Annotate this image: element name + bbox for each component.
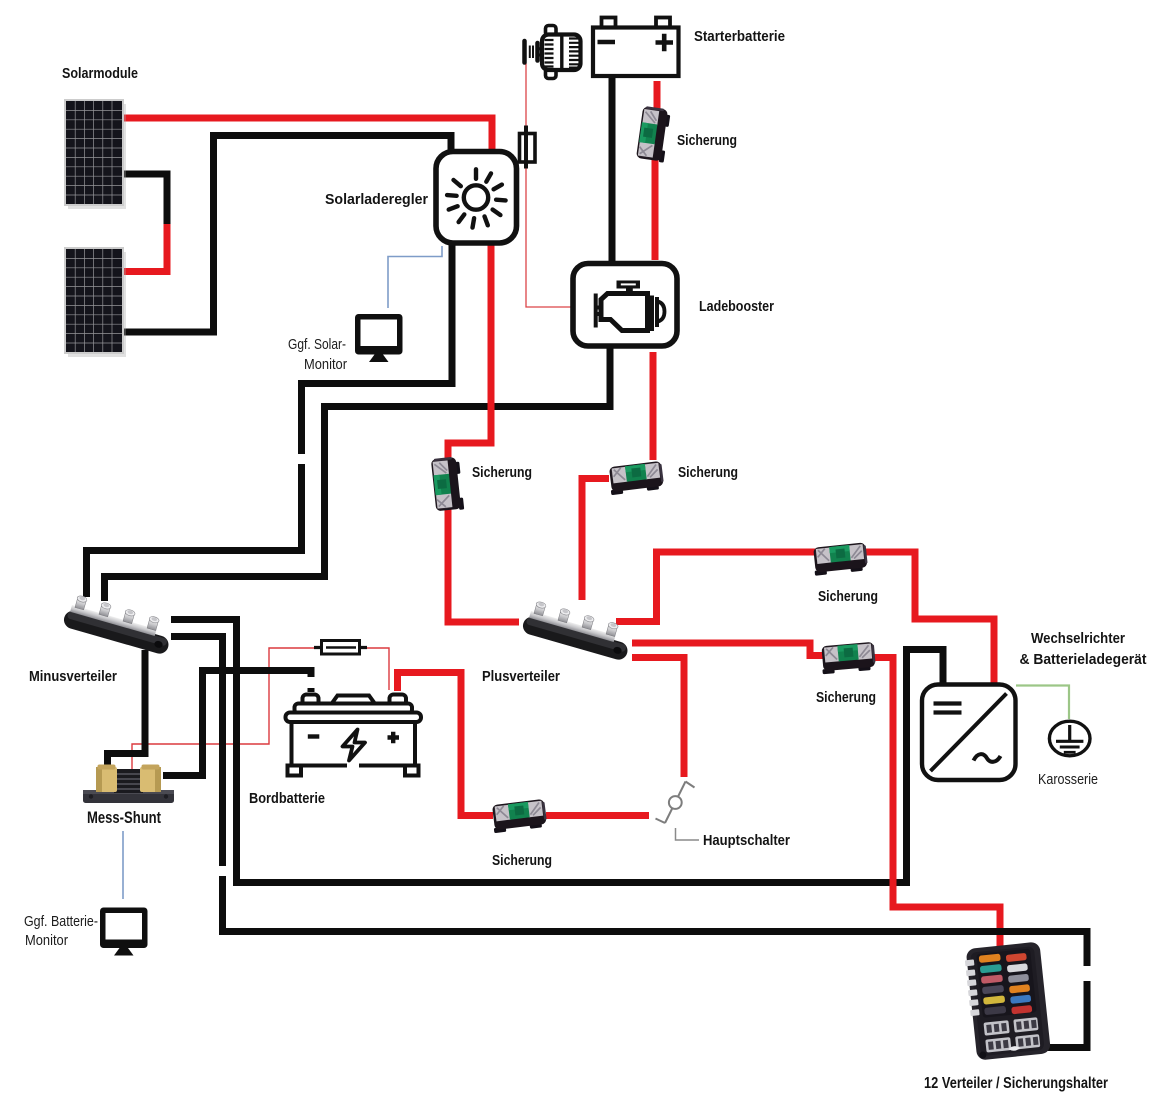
svg-text:Ggf. Batterie-: Ggf. Batterie- [24,914,98,930]
wire black minusverteiler to 12-way fuse box [171,637,1087,1048]
wire black minusverteiler to shunt left [108,650,146,766]
solar panel PV2 [65,248,126,357]
plus distributor bus bar (Plusverteiler) [521,599,634,662]
solar monitor icon [355,314,403,362]
fuse F1 (photo, vertical) [636,106,671,163]
svg-text:12 Verteiler / Sicherungshalte: 12 Verteiler / Sicherungshalter [924,1075,1108,1092]
wire red plusverteiler to fuse F4 [616,552,820,622]
wire black panel2 minus to controller top [123,136,451,333]
wire black ladebooster minus to minusverteiler stud2 [105,346,611,601]
svg-text:Plusverteiler: Plusverteiler [482,669,560,685]
wire red fuse F3 to plusverteiler [582,479,609,601]
wire black starterbatterie minus to ladebooster [609,78,616,261]
solar charge controller (Solarladeregler) [436,152,517,244]
svg-text:Starterbatterie: Starterbatterie [694,29,785,45]
svg-text:Monitor: Monitor [304,357,347,373]
svg-text:Solarmodule: Solarmodule [62,66,138,82]
wire black bordbatterie minus to shunt right [163,671,311,776]
inverter and charger (Wechselrichter & Batterieladegeraet) [922,685,1016,781]
starter battery (Starterbatterie) [593,18,679,77]
wire black solar panel1 minus to interconnect [123,174,167,226]
wire red interconnect to panel2 plus [123,224,167,272]
svg-text:Solarladeregler: Solarladeregler [325,192,428,208]
fuse F6 (photo) [491,799,548,833]
wire thin blue shunt to battery monitor [122,831,124,899]
fuse F4 (photo) [812,542,868,575]
wire black minusverteiler to inverter minus [171,620,943,883]
main switch (Hauptschalter) [656,782,695,824]
wire black controller minus to minusverteiler stud1 [87,244,453,597]
wire red fuse F1 to ladebooster plus [652,155,659,260]
wire green inverter to chassis ground [1016,686,1069,720]
wire red ladebooster out to fuse F3 [650,352,657,460]
fuse symbol FS2 inline (sense line) [314,641,367,655]
svg-text:Hauptschalter: Hauptschalter [703,833,790,849]
svg-text:Sicherung: Sicherung [816,690,876,706]
svg-text:Bordbatterie: Bordbatterie [249,791,325,807]
wire red bordbatterie plus to fuse F6 [398,673,494,816]
wire red plusverteiler to fuse F5 [632,643,827,656]
wire red fuse F6 to hauptschalter [546,812,649,819]
wire red controller out to fuse F2 [448,244,491,463]
fuse F2 (photo, vertical) [431,456,464,512]
wire jump marker on controller minus run [298,454,306,464]
alternator (Lichtmaschine) [525,26,581,79]
wire thin red battery sense (shunt to bordbatterie plus) [132,648,389,776]
svg-text:Sicherung: Sicherung [492,853,552,869]
wire jump marker on fuse box minus run (left) [219,866,227,876]
fuse F5 (photo) [820,642,876,675]
wire red starterbatterie plus to fuse F1 [654,81,661,113]
wire red fuse F5 to 12-way fuse box [865,658,1000,947]
wire red plusverteiler to hauptschalter [632,658,684,778]
fuse F3 (photo) [608,461,665,495]
svg-text:Mess-Shunt: Mess-Shunt [87,808,161,827]
svg-text:Ggf. Solar-: Ggf. Solar- [288,337,346,353]
charge booster (Ladebooster) with engine icon [573,264,677,347]
12-way fuse box (12 Verteiler / Sicherungshalter) [964,941,1051,1060]
svg-text:Sicherung: Sicherung [472,465,532,481]
svg-text:& Batterieladegerät: & Batterieladegerät [1020,652,1147,668]
board battery (Bordbatterie) [286,695,422,776]
wire jump marker on fuse box minus run (right) [1083,966,1092,981]
wire red fuse F4 to inverter plus [863,552,994,685]
svg-text:Minusverteiler: Minusverteiler [29,669,117,685]
chassis ground symbol (Karosserie) [1049,721,1090,756]
measuring shunt (Mess-Shunt) [83,765,174,804]
svg-text:Ladebooster: Ladebooster [699,299,774,315]
wire red fuse F2 to plusverteiler [448,505,519,622]
svg-text:Sicherung: Sicherung [677,133,737,149]
svg-text:Monitor: Monitor [25,933,68,949]
wire red panel1 plus to controller top [123,118,492,152]
svg-text:Sicherung: Sicherung [678,465,738,481]
switch label connector line [676,828,700,840]
svg-text:Wechselrichter: Wechselrichter [1031,631,1125,647]
wire jump marker on bordbatterie minus drop [307,677,316,688]
wire thin blue controller to solar monitor [388,246,442,308]
fuse symbol FS1 inline (alternator line) [520,126,536,169]
svg-text:Karosserie: Karosserie [1038,772,1098,788]
svg-text:Sicherung: Sicherung [818,589,878,605]
minus distributor bus bar (Minusverteiler) [62,593,175,656]
wire thin red alternator D+ to Ladebooster [526,63,573,307]
battery monitor icon [100,908,148,956]
solar panel PV1 [65,100,126,209]
